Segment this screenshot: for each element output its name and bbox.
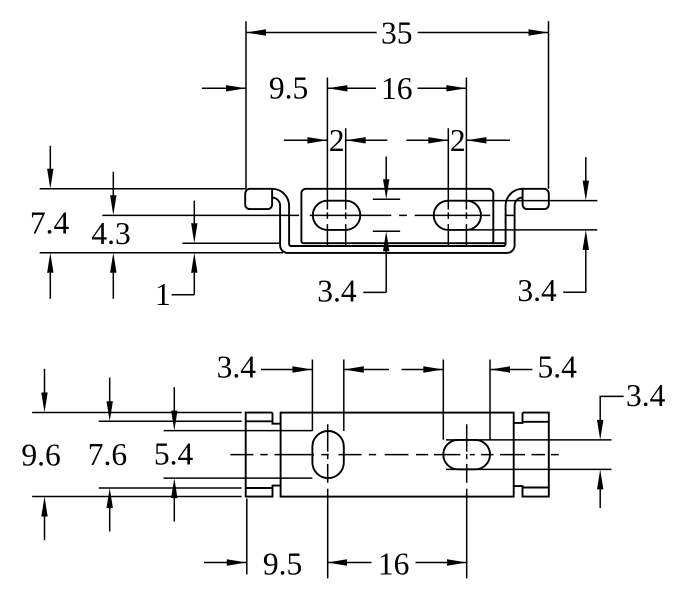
dim 9.5 top: arrow from left — [202, 87, 246, 89]
side view: right slot (obround) — [434, 201, 481, 230]
dim 16 top: extension line left (x=327.4) — [326, 78, 328, 247]
plan view: right tab fold lines — [523, 421, 549, 423]
svg-text:16: 16 — [378, 546, 410, 581]
side view: horizontal centerline (solid left extension then dash-dot) — [102, 214, 514, 216]
dim 9.6: extension lines — [32, 412, 242, 414]
dim 4.3: arrows — [112, 172, 114, 202]
dim 3.4 right (right slot width): extension lines — [466, 200, 597, 202]
dim 2 left: inner extension line (x=345.7) — [345, 128, 347, 246]
svg-text:3.4: 3.4 — [217, 349, 257, 384]
side view: inner bend surface + strip bottom line — [272, 198, 522, 253]
plan view: left slot (vertical obround) — [312, 431, 343, 478]
svg-text:2: 2 — [450, 123, 466, 158]
dim 16 bottom: dimension line with arrows — [327, 562, 372, 564]
dim 7.4: top extension line (y=188.8) — [40, 188, 247, 190]
side view: left curled hook end — [245, 189, 272, 209]
dim 5.4 top-right: extension lines — [442, 360, 444, 440]
dim 1: arrows — [193, 201, 195, 230]
plan view: left tab outline — [246, 413, 281, 497]
svg-text:5.4: 5.4 — [154, 436, 194, 471]
dim 3.4 right: leader and text — [563, 291, 586, 293]
plan view: left slot vertical centerline — [327, 424, 329, 578]
svg-text:1: 1 — [155, 277, 171, 312]
dim 7.6: extension lines — [99, 420, 242, 422]
side view: left slot (obround) — [313, 201, 360, 230]
dim 1: top extension line (y=243.2) — [182, 242, 280, 244]
svg-text:4.3: 4.3 — [91, 216, 130, 251]
dim 16 top: extension line right (x=466.4) — [465, 78, 467, 247]
side view: main body rectangle — [301, 189, 493, 243]
svg-text:35: 35 — [381, 15, 413, 50]
dim 2 left: arrows and lines — [284, 139, 328, 141]
plan view: right slot vertical centerline — [466, 424, 468, 578]
dim 16 top: dimension line with arrows — [327, 87, 376, 89]
svg-text:3.4: 3.4 — [317, 273, 357, 308]
dim 5.4 left: arrows — [173, 387, 175, 417]
dim 3.4 middle (left slot width): stub extension lines — [373, 198, 400, 200]
svg-text:9.5: 9.5 — [269, 70, 308, 105]
dim 3.4 middle: arrows — [385, 157, 387, 186]
dim 2 right: arrows and lines — [406, 139, 448, 141]
plan view: horizontal centerline — [230, 454, 559, 456]
side view: outer bend surface (top) + strip top line — [272, 189, 522, 246]
side view: inner shelf line behind straps — [491, 242, 505, 244]
svg-text:3.4: 3.4 — [517, 273, 557, 308]
svg-text:9.5: 9.5 — [263, 546, 302, 581]
dim 5.4 left: extension lines — [164, 430, 313, 432]
dim 2 right: inner extension line (x=448.3) — [447, 128, 449, 246]
svg-text:5.4: 5.4 — [538, 349, 578, 384]
dim 1: leader and text — [172, 294, 195, 296]
dim 3.4 far-right: extension lines from slot tangents — [446, 439, 612, 441]
dim 35: extension line left (x=246) — [245, 21, 247, 189]
dim 7.4: bottom extension line (y=252.7) — [40, 252, 283, 254]
dim 3.4 far-right: leader — [600, 396, 624, 421]
svg-text:7.4: 7.4 — [30, 205, 70, 240]
dim 3.4 top-left: arrows — [261, 369, 313, 371]
dim 9.6: arrows — [44, 369, 46, 399]
dim 35: extension line right (x=548.5) — [548, 21, 550, 189]
plan view: right slot (horizontal obround) — [443, 440, 490, 469]
dim 7.4: arrows — [49, 146, 51, 175]
plan view: main plate rectangle — [281, 413, 514, 497]
plan view: right tab outline — [514, 413, 549, 497]
dim 3.4 top-left: extension lines — [311, 360, 313, 432]
svg-text:7.6: 7.6 — [88, 437, 127, 472]
dim 9.5 bottom: arrow from left — [204, 562, 247, 564]
svg-text:2: 2 — [329, 123, 345, 158]
svg-text:9.6: 9.6 — [21, 438, 60, 473]
svg-text:16: 16 — [381, 71, 413, 106]
dim 3.4 middle: leader and text — [363, 291, 386, 293]
dim 7.6: arrows — [109, 378, 111, 408]
dim 5.4 top-right: arrows — [402, 369, 444, 371]
svg-text:3.4: 3.4 — [626, 378, 666, 413]
dim 3.4 right: arrows — [585, 157, 587, 187]
side view: right curled hook end — [523, 189, 549, 209]
plan view: left tab fold lines — [246, 420, 272, 422]
dim 9.5 bottom: extension line (x=246.8) — [246, 499, 248, 575]
dim 35: dimension line with arrows — [246, 32, 377, 34]
